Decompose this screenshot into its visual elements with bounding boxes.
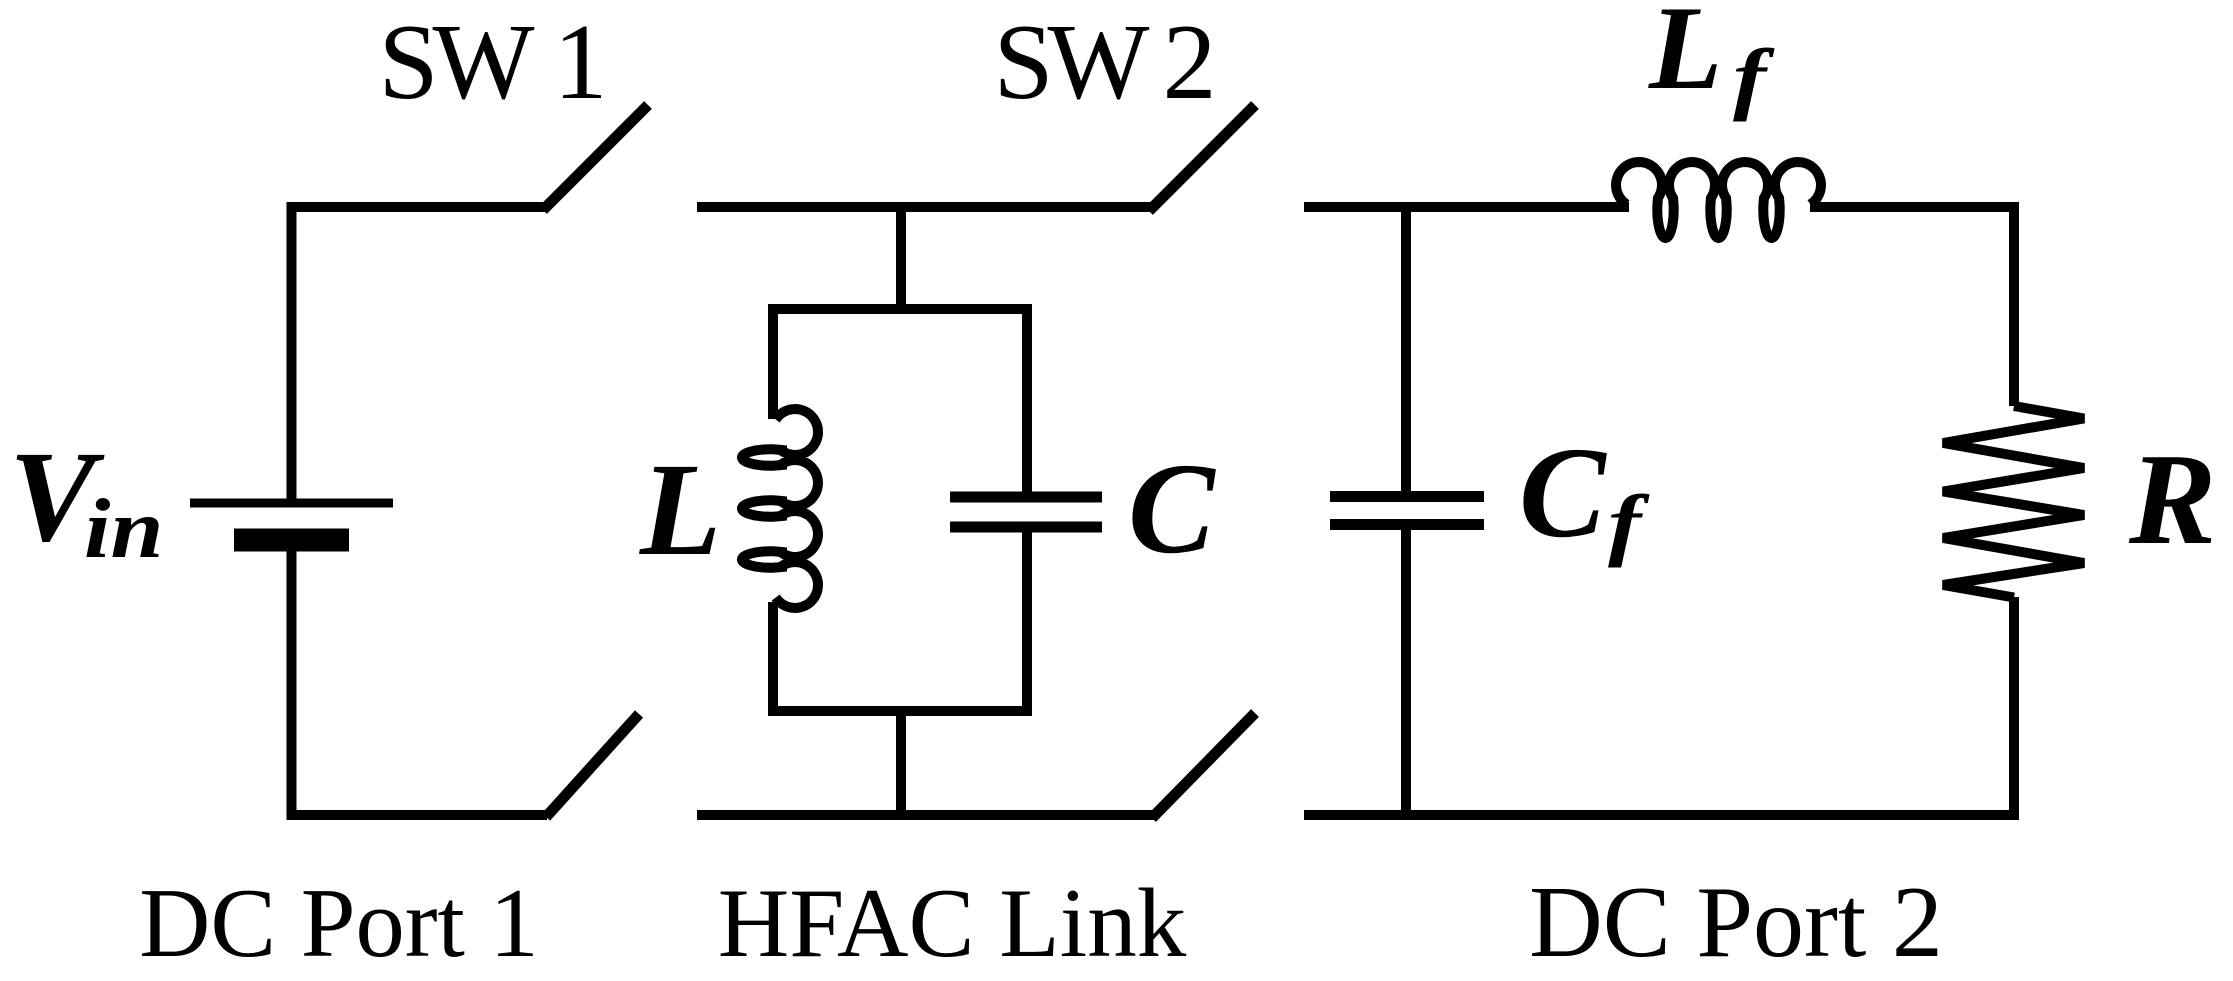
svg-text:SW 2: SW 2	[993, 3, 1211, 122]
svg-text:SW 1: SW 1	[378, 3, 601, 122]
svg-text:C: C	[1519, 421, 1607, 565]
svg-text:L: L	[1648, 0, 1722, 114]
svg-text:DC Port 2: DC Port 2	[1529, 866, 1943, 979]
svg-text:HFAC Link: HFAC Link	[718, 869, 1187, 978]
svg-text:in: in	[84, 482, 163, 576]
svg-text:L: L	[639, 435, 721, 583]
svg-text:R: R	[2128, 427, 2216, 572]
svg-text:DC Port 1: DC Port 1	[139, 869, 539, 978]
svg-text:C: C	[1128, 437, 1216, 581]
